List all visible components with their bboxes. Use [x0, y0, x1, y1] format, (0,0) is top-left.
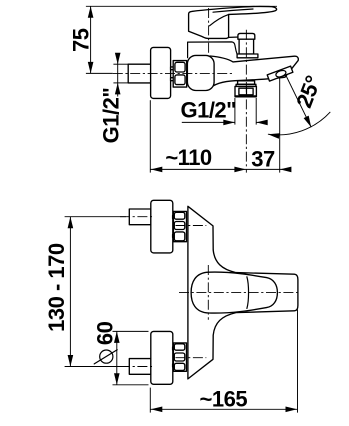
aerator on spout end — [267, 66, 293, 81]
thread stubs between flange and nut — [171, 67, 175, 81]
top inlet thread stubs — [173, 216, 175, 238]
dimension 75 line with arrows — [88, 6, 94, 73]
lever handle hood and blade (side view) — [189, 6, 277, 38]
dimension G1/2 left: extension lines — [113, 64, 128, 83]
bottom inlet thread stubs — [173, 347, 175, 367]
25 degree inclined line with arrow — [280, 64, 314, 129]
centerline handle axis (plan view) — [207, 265, 209, 320]
svg-text:37: 37 — [251, 147, 275, 172]
centerline main axis (plan view) — [179, 292, 301, 294]
bottom inlet hex nut (plan view) — [173, 343, 186, 371]
centerline top inlet nut axis — [176, 225, 207, 227]
dimension text 25deg (rotated) — [291, 73, 326, 112]
svg-text:60: 60 — [92, 321, 117, 345]
shower outlet nut with G1/2 thread — [235, 86, 256, 96]
body outline (plan view) — [188, 206, 298, 379]
diverter knob cap — [238, 33, 255, 39]
shower outlet collar — [238, 81, 255, 85]
dimension line ~165 with arrows — [150, 407, 297, 413]
collar under handle — [188, 42, 238, 58]
top inlet hex nut (plan view) — [173, 211, 186, 241]
dimension 130-170 line with arrows — [68, 217, 74, 367]
extension line wall plane (bottom view) — [149, 388, 151, 413]
dimension 130-170 extension bottom — [65, 366, 126, 368]
dimension text G1/2" left (rotated) — [98, 88, 123, 144]
diverter knob body — [239, 39, 254, 54]
label G1/2" bottom text — [180, 98, 236, 123]
centerline diverter/outlet axis — [245, 30, 247, 173]
wall pipe stub G1/2 (side view) — [128, 64, 151, 83]
svg-text:75: 75 — [69, 28, 94, 52]
dimension 75 extension line top — [86, 5, 277, 7]
svg-text:G1/2": G1/2" — [180, 98, 236, 123]
centerline cartridge axis — [208, 8, 210, 55]
extension line spout tip (right of 37) — [279, 76, 281, 173]
ledge right of hood — [229, 36, 240, 38]
hex nut (side view) — [173, 61, 187, 88]
dimension diameter 60: extension lines — [113, 331, 149, 384]
shower outlet ring — [236, 84, 256, 86]
diverter knob base — [237, 54, 258, 58]
extension line wall plane (left of ~110) — [149, 100, 151, 172]
dimension 75 extension line bottom — [86, 72, 113, 74]
dimension line ~110 / 37 with arrows — [150, 167, 291, 173]
svg-text:~110: ~110 — [165, 145, 212, 170]
spout (side view) — [208, 56, 298, 89]
dimension text 60 (rotated) — [92, 321, 117, 345]
top inlet flange (plan view) — [151, 200, 173, 253]
svg-text:G1/2": G1/2" — [98, 88, 123, 144]
dimension 130-170 extension top — [65, 216, 126, 218]
centerline bottom inlet nut axis — [176, 357, 207, 359]
extension line spout tip (bottom view) — [297, 310, 299, 413]
dimension text 75 — [69, 28, 94, 52]
diameter symbol — [94, 350, 117, 364]
extension lines for G1/2 thread diameter — [235, 98, 256, 125]
dimension G1/2 left: line and arrows — [115, 53, 121, 97]
centerline main axis (top view) — [113, 72, 233, 74]
handle upper crease line — [213, 9, 253, 12]
label G1/2" bottom leader with arrows — [182, 120, 268, 126]
dimension text ~110 — [165, 145, 212, 170]
top inlet pipe stub (plan view) — [129, 209, 151, 225]
handle divider line (plan view) — [247, 277, 249, 309]
handle lower crease line — [210, 15, 229, 26]
wall flange disc (side view) — [151, 47, 171, 98]
svg-text:~165: ~165 — [200, 387, 248, 412]
body core (side view) — [187, 55, 214, 90]
bottom inlet pipe stub (plan view) — [129, 359, 151, 375]
25 degree arc with arrow — [267, 112, 330, 139]
bottom inlet flange (plan view) — [151, 331, 173, 384]
dimension text 37 — [251, 147, 275, 172]
centerline top inlet pipe axis — [120, 216, 152, 218]
dimension diameter 60: line with arrows — [114, 331, 120, 384]
dimension text 130 - 170 (rotated) — [44, 243, 69, 332]
centerline bottom inlet pipe axis — [120, 366, 152, 368]
svg-text:130 - 170: 130 - 170 — [44, 243, 69, 332]
dimension text ~165 — [200, 387, 248, 412]
lever handle (plan view) — [191, 272, 277, 313]
